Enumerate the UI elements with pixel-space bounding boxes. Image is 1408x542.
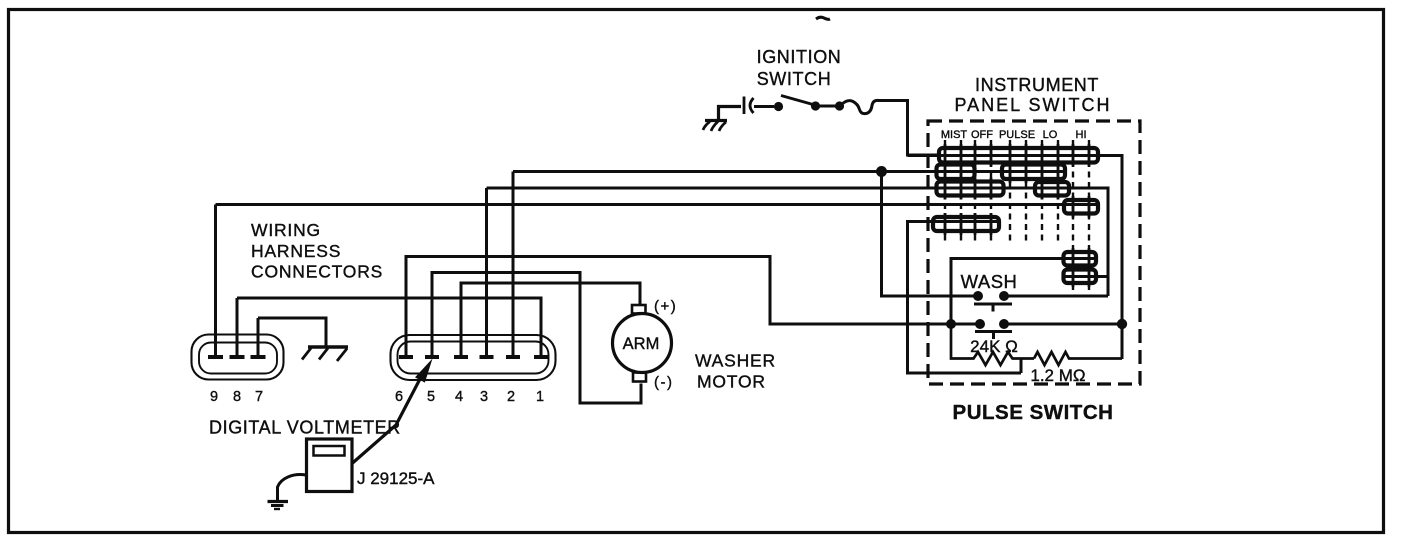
contact bar row 1 (feed) bbox=[939, 148, 1098, 163]
svg-text:1: 1 bbox=[536, 389, 544, 405]
pointer line J 29125-A to pin 5 bbox=[352, 377, 421, 464]
svg-text:1.2 MΩ: 1.2 MΩ bbox=[1030, 366, 1085, 385]
wire wash row2 right bbox=[1004, 323, 1122, 326]
ignition switch S1 bbox=[774, 96, 844, 112]
pin 3 bbox=[480, 188, 494, 357]
contact bar row 2 MIST-OFF bbox=[937, 165, 975, 180]
dashed channel PULSE bbox=[1010, 140, 1026, 241]
svg-text:8: 8 bbox=[233, 389, 241, 405]
svg-text:WIRING: WIRING bbox=[251, 220, 321, 240]
svg-text:IGNITION: IGNITION bbox=[757, 47, 842, 67]
wire row1 to right bus bbox=[908, 156, 1123, 360]
svg-text:PULSE SWITCH: PULSE SWITCH bbox=[953, 401, 1114, 424]
svg-text:ARM: ARM bbox=[623, 335, 660, 353]
svg-text:PULSE: PULSE bbox=[999, 129, 1035, 141]
svg-text:2: 2 bbox=[507, 389, 515, 405]
svg-text:(+): (+) bbox=[654, 298, 677, 315]
svg-text:LO: LO bbox=[1043, 129, 1058, 141]
ground (harness) bbox=[302, 347, 348, 361]
label IGNITION SWITCH bbox=[757, 47, 842, 89]
svg-text:5: 5 bbox=[427, 389, 435, 405]
svg-text:SWITCH: SWITCH bbox=[757, 69, 832, 89]
in-line connector symbol (ignition feed) bbox=[744, 97, 754, 115]
pin 4 bbox=[454, 283, 640, 357]
svg-text:WASHER: WASHER bbox=[695, 351, 776, 371]
washer motor M1 bbox=[613, 305, 672, 382]
wire pin6 to wash row 2 bbox=[406, 257, 951, 357]
dashed channel HI bbox=[1073, 140, 1089, 290]
connector C2 (6-pin) bbox=[391, 335, 556, 380]
junction node right bus bbox=[1117, 319, 1127, 329]
wire row 4 from pin 9 bbox=[216, 203, 1097, 206]
wire row 3 from pin 3 bbox=[487, 188, 1109, 296]
svg-text:OFF: OFF bbox=[971, 129, 993, 141]
connector C1 (3-pin) bbox=[192, 335, 284, 380]
pin 5 bbox=[425, 273, 641, 404]
svg-text:J 29125-A: J 29125-A bbox=[357, 469, 435, 488]
dashed channel LO bbox=[1042, 140, 1058, 241]
wire connector to switch bbox=[754, 105, 774, 108]
wire wash row1 right bbox=[1004, 295, 1108, 298]
wash pushbutton contact row 2 bbox=[951, 319, 1012, 339]
contact bar row 2 PULSE-LO bbox=[1002, 165, 1065, 180]
contact bar row 3 MIST-PULSE bbox=[937, 182, 1004, 196]
dashed channel MIST bbox=[945, 140, 961, 241]
dashed box INSTRUMENT PANEL SWITCH bbox=[928, 121, 1140, 384]
svg-text:(-): (-) bbox=[654, 374, 674, 391]
resistor 1.2M bbox=[1034, 352, 1122, 365]
label WIRING HARNESS CONNECTORS bbox=[251, 220, 383, 282]
wire pin 8 to pin 1 bbox=[237, 298, 541, 356]
junction node wash row2 left bbox=[946, 319, 956, 329]
wire 24K junction down bbox=[1020, 359, 1023, 374]
contact bar row 3 LO bbox=[1035, 182, 1069, 196]
svg-text:7: 7 bbox=[255, 389, 263, 405]
svg-text:INSTRUMENT: INSTRUMENT bbox=[975, 75, 1099, 95]
svg-text:4: 4 bbox=[455, 389, 463, 405]
svg-text:MIST: MIST bbox=[941, 129, 968, 141]
wire lower wash bar to node bbox=[1065, 275, 1108, 278]
svg-text:HI: HI bbox=[1076, 129, 1087, 141]
svg-text:DIGITAL VOLTMETER: DIGITAL VOLTMETER bbox=[209, 418, 401, 438]
wire ignition switch to panel row 1 (wavy then down) bbox=[842, 100, 940, 155]
dashed channel OFF bbox=[975, 140, 991, 241]
pin 7 bbox=[251, 318, 266, 357]
wash contact bar lower bbox=[1064, 270, 1097, 284]
pin 8 bbox=[230, 298, 245, 357]
contact bar row 4 HI bbox=[1064, 200, 1098, 214]
label INSTRUMENT PANEL SWITCH bbox=[954, 75, 1111, 115]
svg-text:3: 3 bbox=[480, 389, 488, 405]
pin numbers 6 5 4 3 2 1 bbox=[395, 389, 544, 405]
digital voltmeter body bbox=[307, 439, 353, 492]
wire pin 7 to ground bbox=[258, 318, 326, 347]
svg-text:9: 9 bbox=[210, 389, 218, 405]
contact bar row 5 MIST-OFF bbox=[933, 217, 999, 231]
svg-text:WASH: WASH bbox=[961, 271, 1018, 292]
pin numbers 9 8 7 bbox=[210, 389, 263, 405]
switch finger ticks crossing contact bars bbox=[945, 144, 1089, 287]
labels MIST OFF PULSE LO HI bbox=[941, 129, 1087, 141]
ground (ignition switch) bbox=[703, 121, 727, 132]
pin 1 bbox=[534, 355, 548, 359]
wire upper wash bar to wash switch bbox=[951, 259, 1095, 325]
svg-text:24K Ω: 24K Ω bbox=[970, 337, 1018, 356]
pin 2 bbox=[506, 172, 520, 358]
wash contact bar upper bbox=[1064, 252, 1097, 266]
junction node on row2 wire bbox=[876, 166, 887, 177]
pin 9 bbox=[208, 205, 223, 358]
svg-text:PANEL SWITCH: PANEL SWITCH bbox=[954, 95, 1111, 115]
wire voltmeter to earth ground bbox=[278, 475, 307, 500]
wire ground to connector symbol bbox=[719, 107, 742, 121]
label WASHER MOTOR bbox=[695, 351, 776, 392]
wire row 2 from pin 2 bbox=[513, 170, 1065, 173]
svg-text:6: 6 bbox=[395, 389, 403, 405]
svg-text:CONNECTORS: CONNECTORS bbox=[251, 262, 383, 282]
svg-text:HARNESS: HARNESS bbox=[251, 241, 341, 261]
earth ground (voltmeter) bbox=[268, 502, 289, 510]
wash pushbutton contact row 1 bbox=[973, 291, 1012, 312]
wire junction down to WASH row 1 bbox=[882, 172, 979, 297]
arrowhead at pin 5 bbox=[415, 359, 433, 383]
resistor 24K bbox=[951, 324, 1034, 365]
wire row 5 to resistor bottom bbox=[908, 222, 1022, 374]
pin 6 bbox=[399, 355, 413, 359]
svg-text:MOTOR: MOTOR bbox=[697, 372, 766, 392]
